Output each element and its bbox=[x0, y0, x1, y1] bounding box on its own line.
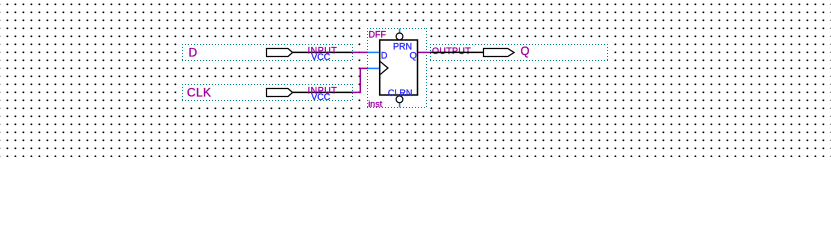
wire net DFF Q to OUTPUT bbox=[418, 51, 431, 53]
svg-text:CLRN: CLRN bbox=[388, 88, 413, 98]
output pin lead wire bbox=[431, 51, 484, 53]
DFF CLRN bubble bbox=[396, 96, 403, 103]
svg-text:D: D bbox=[189, 46, 198, 60]
svg-text:D: D bbox=[381, 51, 388, 61]
svg-text:inst: inst bbox=[368, 99, 383, 109]
svg-text:CLK: CLK bbox=[187, 85, 212, 99]
input pin D lead wire bbox=[293, 51, 353, 53]
svg-text:OUTPUT: OUTPUT bbox=[432, 46, 471, 56]
DFF body rectangle bbox=[380, 40, 418, 95]
svg-text:Q: Q bbox=[410, 51, 417, 62]
wire net CLK to DFF (elbow) bbox=[352, 68, 369, 92]
input pin D selection box bbox=[181, 43, 355, 63]
input pin CLK pentagon symbol bbox=[267, 89, 293, 97]
svg-text:VCC: VCC bbox=[311, 92, 331, 102]
input pin CLK selection box bbox=[181, 83, 355, 103]
svg-text:VCC: VCC bbox=[311, 52, 331, 62]
DFF pin stub CLRN (blue) bbox=[399, 103, 401, 108]
wire net D to DFF bbox=[352, 51, 369, 53]
DFF U1 selection box bbox=[366, 27, 429, 110]
output pin Q pentagon symbol bbox=[484, 49, 515, 57]
DFF PRN bubble bbox=[396, 33, 403, 40]
input pin D pentagon symbol bbox=[267, 49, 293, 57]
input pin CLK lead wire bbox=[293, 91, 353, 93]
DFF pin stub CLK (blue) bbox=[368, 67, 380, 69]
DFF pin stub D (blue) bbox=[368, 51, 380, 53]
DFF clock triangle bbox=[380, 62, 388, 75]
output pin Q selection box bbox=[429, 43, 610, 64]
svg-text:DFF: DFF bbox=[369, 29, 387, 39]
DFF pin stub PRN (blue) bbox=[399, 29, 401, 34]
svg-text:Q: Q bbox=[521, 46, 530, 58]
